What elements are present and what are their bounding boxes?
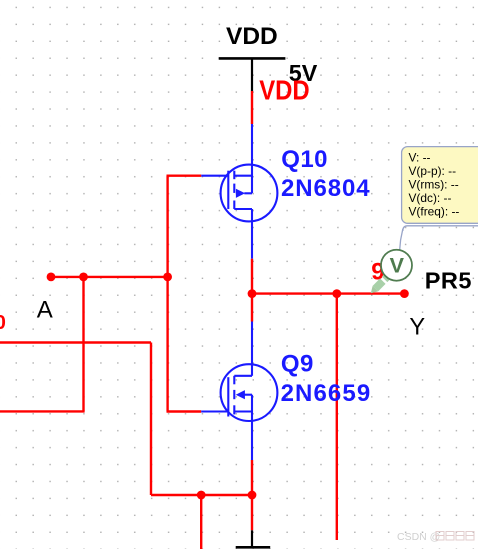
- junction output at drain: [248, 289, 257, 298]
- junction probe attach: [400, 289, 409, 298]
- svg-text:Y: Y: [409, 314, 425, 340]
- svg-text:2N6804: 2N6804: [281, 175, 370, 202]
- wire A branch down: [82, 277, 84, 412]
- junction bottom at source: [248, 491, 257, 500]
- transistor Q9 (NMOS 2N6659): [201, 322, 277, 461]
- wire VDD to Q10 source: [251, 91, 253, 124]
- wire Q10 gate horizontal: [167, 174, 202, 176]
- svg-text:PR5: PR5: [425, 267, 472, 293]
- probe PR5 circle: [381, 250, 412, 281]
- junction output mid: [332, 289, 341, 298]
- junction A right: [163, 273, 172, 282]
- wire A branch left: [0, 410, 85, 412]
- transistor Q10 (PMOS 2N6804): [201, 124, 277, 259]
- svg-text:V(rms): --: V(rms): --: [409, 177, 459, 191]
- junction bottom left: [197, 491, 206, 500]
- wire input vertical down: [150, 343, 152, 496]
- wire Q10 drain to output node: [251, 259, 253, 322]
- junction A left end: [47, 273, 56, 282]
- wire gate bus vertical: [166, 176, 168, 412]
- svg-text:2N6659: 2N6659: [281, 380, 372, 407]
- wire stub down off-page: [200, 495, 202, 549]
- ground bar: [236, 546, 271, 549]
- svg-text:Q9: Q9: [281, 350, 314, 377]
- wire output node horizontal: [252, 292, 404, 294]
- wire output stub down: [336, 294, 338, 540]
- wire bottom horizontal: [151, 494, 252, 496]
- svg-text:V(dc): --: V(dc): --: [409, 191, 452, 205]
- ground lead: [251, 530, 253, 547]
- junction A mid: [79, 273, 88, 282]
- svg-text:A: A: [37, 296, 53, 323]
- svg-text:V(freq): --: V(freq): --: [409, 204, 460, 218]
- svg-text:V: V: [390, 253, 405, 277]
- svg-text:CSDN @: CSDN @: [397, 531, 440, 543]
- wire Q9 source to ground: [251, 460, 253, 530]
- wire Q9 gate horizontal: [167, 410, 202, 412]
- wire input node A horizontal: [51, 276, 168, 278]
- svg-text:VDD: VDD: [226, 23, 278, 50]
- wire input horizontal: [0, 341, 151, 343]
- probe tooltip box: [402, 147, 478, 224]
- svg-text:Q10: Q10: [281, 146, 328, 173]
- svg-text:VDD: VDD: [259, 74, 310, 105]
- probe PR5 leader line: [403, 226, 478, 231]
- svg-text:V(p-p): --: V(p-p): --: [409, 164, 457, 178]
- probe PR5 pencil: [368, 271, 393, 296]
- VDD lead (black): [251, 58, 253, 91]
- power symbol VDD bar: [219, 57, 286, 60]
- svg-text:V: --: V: --: [409, 151, 431, 165]
- svg-text:0: 0: [0, 311, 6, 334]
